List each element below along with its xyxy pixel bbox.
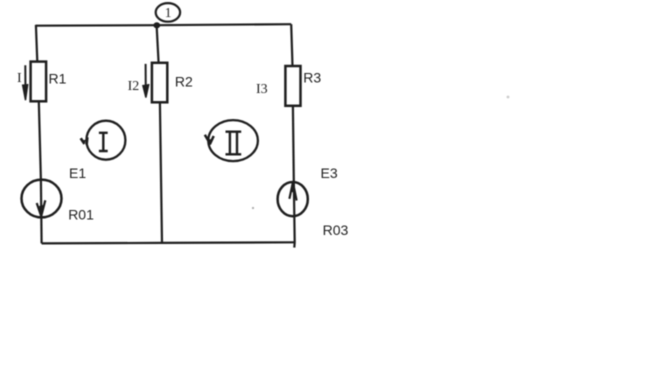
source E1 xyxy=(22,180,62,244)
speck artifact middle xyxy=(252,207,254,209)
wire R2 to bottom xyxy=(160,102,162,243)
svg-text:I3: I3 xyxy=(256,82,268,97)
svg-text:E3: E3 xyxy=(321,165,338,181)
wire R3 to E3 xyxy=(292,106,295,181)
node 1 xyxy=(156,3,180,22)
mesh loop II xyxy=(205,120,258,161)
svg-text:1: 1 xyxy=(165,5,172,20)
wire top xyxy=(36,24,291,26)
wire middle top xyxy=(157,25,159,63)
resistor R1 xyxy=(31,62,46,102)
svg-text:R3: R3 xyxy=(303,70,321,86)
current arrow I1 xyxy=(23,65,28,100)
svg-text:R01: R01 xyxy=(68,206,94,222)
wire R1 to E1 xyxy=(39,101,41,180)
resistor R2 xyxy=(152,63,167,103)
svg-text:E1: E1 xyxy=(69,165,86,181)
resistor R3 xyxy=(285,66,300,106)
svg-text:R2: R2 xyxy=(175,74,193,90)
mesh loop I xyxy=(81,121,126,160)
speck artifact right xyxy=(507,96,510,99)
wire right top xyxy=(291,24,292,66)
current arrow I2 xyxy=(143,64,149,98)
wire left top xyxy=(36,25,37,62)
svg-text:I2: I2 xyxy=(128,79,140,94)
svg-text:R1: R1 xyxy=(49,71,67,87)
wire bottom xyxy=(42,242,295,243)
svg-text:R03: R03 xyxy=(323,222,349,238)
junction dot xyxy=(153,22,160,28)
svg-text:I: I xyxy=(17,71,22,86)
source E3 xyxy=(278,181,308,248)
